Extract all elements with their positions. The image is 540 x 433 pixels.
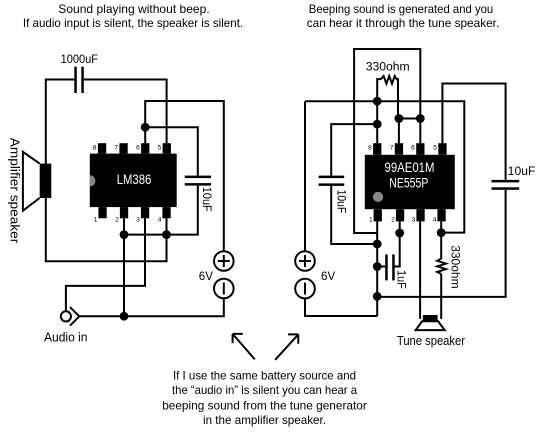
wire: speaker bottom to pin 4 column	[46, 197, 167, 261]
pin 4 stub bottom	[162, 207, 170, 218]
svg-text:2: 2	[391, 217, 395, 224]
svg-text:3: 3	[412, 217, 416, 224]
pin 2 stub bottom right	[396, 209, 404, 221]
wire: pin 8 down	[376, 101, 378, 143]
wire: C1 right to pin 5	[84, 80, 167, 144]
wire: C5 left lead	[377, 266, 385, 268]
wire: pin 7 down	[398, 119, 400, 144]
svg-text:7: 7	[390, 145, 394, 152]
wire: junction to C2 top	[145, 127, 198, 175]
svg-text:beeping sound from the tune ge: beeping sound from the tune generator	[162, 398, 367, 412]
pin 8 stub top	[98, 143, 106, 153]
IC U2 pin1 mark	[373, 192, 383, 202]
svg-text:7: 7	[114, 145, 118, 152]
node: pin 8 junction on vplus rail	[373, 97, 382, 106]
capacitor C2 10uF plates	[185, 176, 211, 186]
svg-text:LM386: LM386	[117, 171, 152, 187]
wire: pin 2 down	[399, 221, 401, 233]
pin 6 stub top	[141, 143, 149, 153]
pin 5 stub top	[163, 143, 171, 153]
wire: C5 right lead to pin 2	[395, 233, 400, 267]
svg-text:5: 5	[158, 145, 162, 152]
wire: C4 bottom to ground rail	[377, 190, 505, 297]
pin 3 stub bottom	[141, 207, 149, 218]
svg-text:1: 1	[94, 217, 98, 224]
wire: pin 1 down	[376, 221, 378, 316]
amplifier speaker driver	[40, 164, 52, 198]
pin 7 stub top	[119, 143, 127, 153]
svg-text:8: 8	[368, 145, 372, 152]
capacitor C1 1000uF plates	[74, 67, 84, 93]
audio jack chevron	[70, 307, 79, 326]
svg-text:2: 2	[115, 217, 119, 224]
svg-text:Tune speaker: Tune speaker	[397, 334, 465, 348]
svg-text:99AE01M: 99AE01M	[385, 160, 435, 175]
svg-text:Beeping sound is generated and: Beeping sound is generated and you	[309, 3, 493, 16]
svg-text:the “audio in” is silent you c: the “audio in” is silent you can hear a	[172, 383, 357, 397]
resistor R1 330ohm with leads	[377, 76, 398, 119]
wire: battery plus up to vplus rail	[304, 101, 306, 251]
wire: pins 7-6 link	[399, 118, 420, 120]
svg-text:Audio in: Audio in	[44, 330, 88, 344]
svg-text:4: 4	[433, 217, 437, 224]
capacitor C4 10uF plates	[492, 180, 520, 190]
svg-text:Amplifier speaker: Amplifier speaker	[7, 138, 21, 244]
battery B1 minus terminal	[214, 279, 234, 299]
wire: R2 to speaker	[440, 274, 442, 319]
wire: C2 bottom to ground rail	[124, 186, 198, 235]
resistor R2 330ohm vertical	[437, 259, 446, 274]
svg-text:NE555P: NE555P	[389, 175, 428, 190]
svg-text:6V: 6V	[321, 270, 335, 283]
node: pin 2 junction	[395, 229, 404, 238]
svg-text:330ohm: 330ohm	[448, 245, 461, 288]
wire: battery minus to pin 1 column	[305, 298, 377, 316]
node: junction above pin 6	[141, 123, 150, 132]
node: pin1-C5 junction	[373, 262, 382, 271]
wire: speaker top to C1 left	[46, 80, 75, 165]
battery B1 plus terminal	[214, 251, 234, 271]
node: pin1-C3 junction	[373, 240, 382, 249]
IC U2 NE555 body	[365, 155, 455, 209]
svg-text:1uF: 1uF	[394, 270, 407, 289]
capacitor C3 10uF plates	[319, 176, 345, 186]
wire: pin 3 to audio tip	[66, 218, 145, 311]
pin 5 stub top right	[438, 143, 446, 155]
pin 4 stub bottom right	[437, 209, 445, 221]
pin 8 stub top right	[373, 143, 381, 155]
pin 1 stub bottom right	[374, 209, 382, 221]
svg-text:6: 6	[411, 145, 415, 152]
svg-text:10uF: 10uF	[508, 164, 536, 178]
wire: pin 5 to C4 top	[442, 84, 505, 180]
capacitor C5 1uF plates	[385, 254, 395, 280]
battery B2 plus terminal	[295, 251, 315, 271]
svg-text:5: 5	[433, 145, 437, 152]
tune speaker cone	[416, 321, 445, 330]
wire: top box pin6 to pin1 column	[354, 49, 420, 233]
pin 6 stub top right	[416, 143, 424, 155]
arrow left	[233, 334, 255, 360]
wire: junction to C3 top	[331, 124, 377, 176]
wire: C3 bottom to pin 1	[331, 186, 377, 244]
svg-text:10uF: 10uF	[335, 190, 348, 214]
wire: battery minus to bottom rail	[79, 298, 224, 316]
wire: pin 4 down to R2	[440, 221, 442, 259]
svg-text:in the amplifier speaker.: in the amplifier speaker.	[203, 413, 326, 427]
wire: pin 6 down	[419, 119, 421, 144]
svg-text:Sound playing without beep.: Sound playing without beep.	[58, 3, 209, 16]
amplifier speaker cone	[23, 152, 40, 211]
svg-text:1000uF: 1000uF	[61, 52, 98, 66]
wire: pin 6 up to battery plus rail	[145, 101, 224, 251]
pin 3 stub bottom right	[416, 209, 424, 221]
battery B2 minus terminal	[295, 279, 315, 299]
wire: pin 3 to speaker	[419, 221, 421, 319]
node: pin 8 to C3 junction	[373, 120, 382, 129]
IC U1 notch	[90, 175, 96, 186]
svg-text:If I use the same battery sour: If I use the same battery source and	[173, 369, 356, 383]
svg-text:can hear it through the tune s: can hear it through the tune speaker.	[307, 17, 500, 30]
svg-text:330ohm: 330ohm	[366, 59, 410, 73]
svg-text:3: 3	[136, 217, 140, 224]
pin 2 stub bottom	[120, 207, 128, 218]
wire: pin 2 down to bottom rail	[123, 218, 125, 316]
pin 1 stub bottom	[98, 207, 106, 218]
node: pin 4 ground junction	[162, 230, 171, 239]
pin 7 stub top right	[395, 143, 403, 155]
tune speaker driver	[423, 315, 438, 321]
IC U1 LM386 body	[90, 154, 177, 208]
node: pin1-ground junction	[373, 292, 382, 301]
node: pin 6 junction	[416, 114, 425, 123]
audio jack tip circle	[61, 311, 71, 321]
svg-text:4: 4	[158, 217, 162, 224]
svg-text:6V: 6V	[199, 270, 213, 283]
svg-text:10uF: 10uF	[200, 187, 213, 212]
node: pin 2 ground junction	[120, 230, 129, 239]
svg-text:1: 1	[369, 217, 373, 224]
svg-text:6: 6	[136, 145, 140, 152]
svg-text:8: 8	[93, 145, 97, 152]
node: pin 4 junction	[437, 228, 446, 237]
svg-text:If audio input is silent, the: If audio input is silent, the speaker is…	[23, 17, 243, 30]
node: pin 7 junction	[395, 114, 404, 123]
arrow right	[275, 334, 298, 359]
node: pin 2 to bottom rail junction	[120, 312, 129, 321]
wire: vplus rail	[305, 101, 464, 232]
